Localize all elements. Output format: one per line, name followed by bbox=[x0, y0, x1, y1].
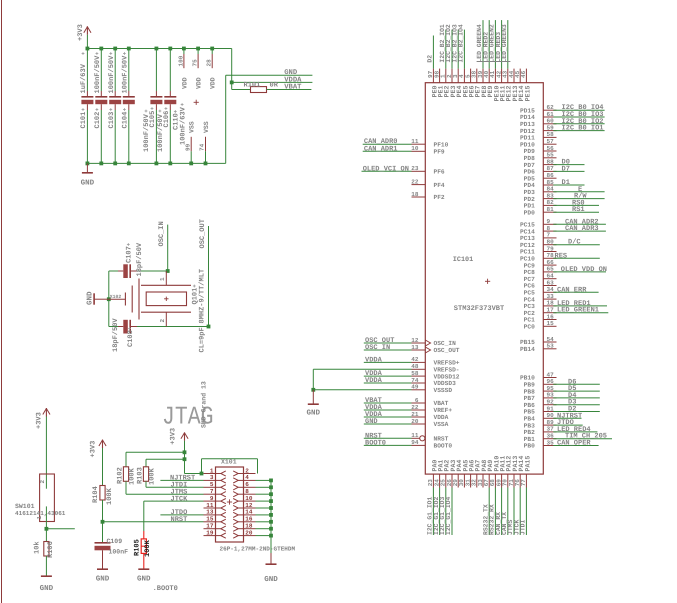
pin 11 NRST (left) bbox=[412, 437, 420, 439]
junction bottom bus bbox=[189, 162, 193, 166]
svg-text:10: 10 bbox=[411, 145, 419, 152]
wire GND bottom bus bbox=[87, 162, 225, 164]
pin 7 PC13 (right) bbox=[543, 237, 556, 239]
net I2C_B0_IO1 wire bbox=[553, 130, 604, 132]
pin 56 PD9 (right) bbox=[543, 150, 556, 152]
svg-text:75: 75 bbox=[192, 59, 199, 67]
net TIM_CH_205 wire bbox=[553, 438, 612, 440]
capacitor C102 bbox=[100, 49, 102, 92]
pin 22 VREF+ (left) bbox=[412, 409, 426, 411]
junction OSC_OUT node bbox=[207, 325, 211, 329]
resistor R102 bbox=[123, 467, 128, 482]
capacitor C103 bbox=[114, 49, 116, 92]
svg-text:C103: C103 bbox=[108, 112, 116, 129]
pin 94 BOOT0 (left) bbox=[412, 444, 426, 446]
pin 59 PD12 (right) bbox=[543, 130, 556, 132]
svg-text:100nF/50V: 100nF/50V bbox=[121, 55, 130, 94]
svg-text:VDDA: VDDA bbox=[434, 414, 449, 421]
pin 71 PA13 (bottom) bbox=[513, 474, 515, 487]
svg-text:R103: R103 bbox=[136, 467, 144, 484]
svg-text:41612141,43061: 41612141,43061 bbox=[15, 510, 66, 517]
net VDDA wire bbox=[364, 409, 412, 411]
net VSSSD wire bbox=[313, 389, 411, 391]
wire VDDA rail bbox=[232, 81, 313, 83]
net CAN_ADR3 wire bbox=[553, 230, 606, 232]
svg-text:GND: GND bbox=[264, 575, 278, 584]
junction top bus bbox=[99, 47, 103, 51]
net JTDI wire bbox=[525, 488, 527, 536]
junction SW101 node bbox=[45, 527, 49, 531]
net RS232_RX wire bbox=[494, 488, 496, 536]
svg-text:D/C: D/C bbox=[568, 238, 581, 247]
svg-text:IC101: IC101 bbox=[453, 256, 473, 264]
pin 14 (right) bbox=[244, 514, 256, 516]
wire OSC_OUT stub bbox=[208, 226, 210, 327]
svg-text:+3V3: +3V3 bbox=[36, 412, 44, 429]
svg-text:VSS: VSS bbox=[203, 121, 210, 133]
net LED_RED1 wire bbox=[553, 305, 607, 307]
pin 88 PD7 (right) bbox=[543, 164, 556, 166]
wire R102 top bbox=[125, 452, 127, 467]
svg-text:C101: C101 bbox=[80, 112, 88, 129]
resistor R101 bbox=[251, 87, 267, 93]
pin 60 PD13 (right) bbox=[543, 123, 556, 125]
pin 92 PB6 (right) bbox=[543, 404, 556, 406]
pin 61 PD14 (right) bbox=[543, 116, 556, 118]
svg-text:RS1: RS1 bbox=[572, 206, 585, 214]
net D2 wire bbox=[432, 36, 434, 69]
svg-text:VREF+: VREF+ bbox=[434, 407, 453, 414]
svg-text:18pF/50V: 18pF/50V bbox=[135, 242, 144, 276]
pin 80 PC12 (right) bbox=[543, 244, 556, 246]
pin 32 PA7 (bottom) bbox=[476, 474, 478, 487]
pin 29 PA4 (bottom) bbox=[457, 474, 459, 487]
pin 35 PB0 (right) bbox=[543, 445, 556, 447]
wire pin1-pin2 bridge bbox=[201, 459, 203, 474]
pin 42 VREFSD+ (left) bbox=[412, 361, 426, 363]
net LED_RED2 wire bbox=[488, 20, 490, 69]
pin 98 PE1 (top) bbox=[439, 69, 441, 83]
svg-text:+3V3: +3V3 bbox=[77, 24, 85, 41]
pin 85 PD4 (right) bbox=[543, 184, 556, 186]
pin 8 (right) bbox=[244, 493, 256, 495]
pin 48 VREFSD- (left) bbox=[412, 368, 426, 370]
pin 21 VDDA (left) bbox=[412, 416, 426, 418]
junction top bus bbox=[210, 47, 214, 51]
IC101 origin cross bbox=[485, 280, 490, 282]
svg-text:JTDI: JTDI bbox=[520, 519, 527, 535]
net RS0 wire bbox=[553, 204, 599, 206]
junction R102 tap bbox=[183, 450, 187, 454]
pin 49 VSSSD (left) bbox=[412, 389, 426, 391]
pin 10 (right) bbox=[244, 500, 256, 502]
net OSC_OUT wire bbox=[364, 342, 412, 344]
pin 6 VBAT (left) bbox=[412, 402, 426, 404]
pin 84 PD3 (right) bbox=[543, 191, 556, 193]
net VDDA wire bbox=[364, 416, 412, 418]
net JTCK wire bbox=[144, 500, 204, 502]
capacitor C104 bbox=[128, 49, 130, 92]
svg-text:R106: R106 bbox=[47, 541, 55, 558]
pin 63 PC6 (right) bbox=[543, 285, 556, 287]
wire pin to GND bus bbox=[256, 500, 272, 502]
svg-text:49: 49 bbox=[411, 384, 419, 391]
svg-text:NRST: NRST bbox=[171, 516, 188, 524]
junction bottom bus bbox=[127, 162, 131, 166]
junction bottom bus bbox=[99, 162, 103, 166]
svg-text:VDD: VDD bbox=[181, 77, 188, 89]
pin 23 PA0 (bottom) bbox=[432, 474, 434, 487]
wire connector GND bus bbox=[270, 480, 272, 553]
pin 2 PE3 (top) bbox=[451, 69, 453, 83]
wire GND riser bbox=[225, 75, 227, 163]
svg-text:PF9: PF9 bbox=[434, 149, 445, 156]
wire OSC_IN stub bbox=[167, 225, 169, 271]
svg-text:94: 94 bbox=[411, 439, 419, 446]
wire +3V3 to SW101 pin 2 bbox=[45, 417, 47, 489]
pin 37 PB2 (right) bbox=[543, 431, 556, 433]
pin 11 (left) bbox=[204, 507, 216, 509]
wire to C108 bbox=[109, 326, 118, 328]
net D5 wire bbox=[553, 390, 600, 392]
junction OSC_IN node bbox=[166, 269, 170, 273]
junction GND bus bbox=[269, 534, 273, 538]
pin 4 PE5 (top) bbox=[463, 69, 465, 83]
svg-text:0R: 0R bbox=[270, 81, 279, 89]
net GND wire bbox=[364, 423, 412, 425]
net BOOT0 wire bbox=[364, 444, 412, 446]
svg-text:100K: 100K bbox=[144, 539, 152, 557]
svg-text:+3V3: +3V3 bbox=[170, 428, 178, 445]
svg-text:PA15: PA15 bbox=[524, 456, 531, 472]
svg-text:12: 12 bbox=[411, 337, 419, 344]
pin 38 PE7 (top) bbox=[476, 69, 478, 83]
pin 68 PA10 (bottom) bbox=[494, 474, 496, 487]
pin 18 PC3 (right) bbox=[543, 305, 556, 307]
svg-text:21: 21 bbox=[411, 411, 419, 418]
junction VSSSD node bbox=[311, 388, 315, 392]
pin VDD 100 bbox=[183, 49, 185, 55]
net CAN_TX wire bbox=[507, 488, 509, 536]
wire VREFSD- to VSSSD bbox=[312, 369, 314, 390]
svg-text:LED_GREEN1: LED_GREEN1 bbox=[557, 307, 599, 315]
svg-text:CAN_ERR: CAN_ERR bbox=[557, 286, 587, 294]
wire pin to GND bus bbox=[256, 535, 272, 537]
pin 24 PA1 (bottom) bbox=[439, 474, 441, 487]
pin 1 PE2 (top) bbox=[445, 69, 447, 83]
net D4 wire bbox=[553, 397, 600, 399]
svg-text:C102: C102 bbox=[94, 112, 102, 129]
pin 41 PE10 (top) bbox=[494, 69, 496, 83]
net LED_GREEN4 wire bbox=[482, 20, 484, 69]
svg-text:46: 46 bbox=[520, 70, 527, 78]
svg-text:C109: C109 bbox=[107, 538, 123, 545]
pin 18 (right) bbox=[244, 528, 256, 530]
pin 65 PC8 (right) bbox=[543, 271, 556, 273]
pin 12 (right) bbox=[244, 507, 256, 509]
net I2C_B0_IO3 wire bbox=[553, 116, 604, 118]
svg-text:BOOT0: BOOT0 bbox=[434, 443, 453, 450]
svg-text:100nF/63V: 100nF/63V bbox=[178, 106, 187, 145]
wire pin to GND bus bbox=[256, 493, 272, 495]
net VDDA wire bbox=[364, 382, 412, 384]
junction bottom bus bbox=[168, 162, 172, 166]
pin 91 PB5 (right) bbox=[543, 411, 556, 413]
svg-text:28: 28 bbox=[206, 59, 213, 67]
svg-text:2: 2 bbox=[39, 480, 46, 484]
svg-text:D1: D1 bbox=[562, 179, 570, 187]
resistor R103 bbox=[143, 467, 148, 482]
net VBAT wire bbox=[364, 402, 412, 404]
wire crystal left vertical bbox=[108, 271, 110, 327]
junction bottom bus bbox=[86, 162, 90, 166]
pin 76 PA14 (bottom) bbox=[519, 474, 521, 487]
pin 10 PF9 (left) bbox=[412, 150, 426, 152]
pin 62 PD15 (right) bbox=[543, 109, 556, 111]
junction top bus bbox=[155, 47, 159, 51]
svg-text:I2C_B2_IO4: I2C_B2_IO4 bbox=[458, 24, 465, 63]
net JTMS wire bbox=[513, 488, 515, 536]
pin 18 PF2 (left) bbox=[412, 196, 426, 198]
svg-text:C104: C104 bbox=[122, 112, 130, 129]
svg-text:53: 53 bbox=[547, 343, 555, 350]
svg-text:99: 99 bbox=[184, 143, 191, 151]
ground R105 GND bbox=[138, 568, 149, 570]
pin 96 PB9 (right) bbox=[543, 383, 556, 385]
net I2C_G1_IO1 wire bbox=[432, 488, 434, 536]
svg-text:C107: C107 bbox=[126, 246, 134, 263]
resistor R106 bbox=[44, 542, 49, 557]
wire +3V3 drop bbox=[231, 49, 233, 83]
junction top bus bbox=[182, 47, 186, 51]
wire +3V3 to R104 bbox=[102, 448, 104, 486]
pin 2 (right) bbox=[244, 473, 256, 475]
ground bbox=[266, 563, 277, 565]
svg-text:D2: D2 bbox=[427, 55, 434, 63]
pin 33 PC4 (right) bbox=[543, 298, 556, 300]
pin 43 PE12 (top) bbox=[507, 69, 509, 83]
pin 23 PF6 (left) bbox=[412, 170, 426, 172]
pin 70 PA12 (bottom) bbox=[507, 474, 509, 487]
wire SW101 pin 1 bbox=[45, 506, 47, 528]
wire to C107 bbox=[109, 270, 118, 272]
svg-text:6: 6 bbox=[415, 397, 419, 404]
net LED_RED4 wire bbox=[553, 431, 597, 433]
svg-text:74: 74 bbox=[199, 143, 206, 151]
svg-text:PB0: PB0 bbox=[524, 443, 535, 450]
pin VDD 75 bbox=[197, 49, 199, 55]
svg-text:SW101: SW101 bbox=[15, 503, 35, 510]
net NRST wire bbox=[103, 521, 204, 523]
junction GND tee bbox=[107, 297, 111, 301]
pin 42 PE11 (top) bbox=[501, 69, 503, 83]
net D3 wire bbox=[553, 404, 600, 406]
junction bottom bus bbox=[204, 162, 208, 166]
junction bottom bus bbox=[155, 162, 159, 166]
pin 97 PE0 (top) bbox=[432, 69, 434, 83]
pin 31 PA6 (bottom) bbox=[470, 474, 472, 487]
IC IC101 STM32F373VBT body bbox=[425, 83, 543, 474]
svg-text:PC0: PC0 bbox=[524, 324, 535, 331]
pin 22 PF4 (left) bbox=[412, 184, 426, 186]
net NRST wire bbox=[364, 437, 412, 439]
svg-text:100nF/50V: 100nF/50V bbox=[107, 55, 116, 94]
net I2C_G1_IO2 wire bbox=[439, 488, 441, 536]
wire +3V3 top bus bbox=[87, 48, 231, 50]
net JTDI wire bbox=[146, 486, 204, 488]
svg-text:OSC_IN: OSC_IN bbox=[158, 221, 166, 246]
pin 58 PD11 (right) bbox=[543, 136, 556, 138]
svg-text:PB14: PB14 bbox=[520, 346, 535, 353]
wire R102 bottom bbox=[125, 481, 127, 494]
svg-text:RES: RES bbox=[555, 252, 568, 260]
wire to pin1 bbox=[185, 473, 202, 475]
svg-text:R102: R102 bbox=[116, 467, 124, 484]
svg-text:100: 100 bbox=[177, 55, 184, 66]
svg-text:R104: R104 bbox=[92, 486, 100, 503]
pin 20 VSSA (left) bbox=[412, 423, 426, 425]
pin 77 PA15 (bottom) bbox=[525, 474, 527, 487]
pin 15 (left) bbox=[204, 521, 216, 523]
svg-text:GND: GND bbox=[137, 575, 151, 584]
svg-text:VSS: VSS bbox=[189, 121, 196, 133]
wire JTCK to R105 bbox=[143, 501, 145, 531]
crystal Q101 bbox=[165, 271, 167, 285]
wire VBAT rail bbox=[267, 89, 312, 91]
junction GND bus bbox=[269, 485, 273, 489]
net CAN_ADR0 wire bbox=[363, 143, 412, 145]
net I2C_B2_IO3 wire bbox=[457, 30, 459, 69]
junction top bus bbox=[168, 47, 172, 51]
svg-text:R105: R105 bbox=[133, 539, 141, 556]
pin 6 (right) bbox=[244, 486, 256, 488]
svg-text:77: 77 bbox=[520, 479, 527, 487]
junction GND bus bbox=[269, 492, 273, 496]
svg-text:19: 19 bbox=[206, 529, 214, 536]
junction top bus bbox=[127, 47, 131, 51]
wire +3V3 to bus bbox=[86, 35, 88, 49]
wire pin to GND bus bbox=[256, 528, 272, 530]
pin 15 PC0 (right) bbox=[543, 325, 556, 327]
pin 5 (left) bbox=[204, 486, 216, 488]
net NJTRST wire bbox=[553, 417, 581, 419]
wire R103 top bbox=[145, 459, 147, 467]
pin 16 PC1 (right) bbox=[543, 319, 556, 321]
pin 13 (left) bbox=[204, 514, 216, 516]
net JTCK wire bbox=[519, 488, 521, 536]
pin 46 PE15 (top) bbox=[525, 69, 527, 83]
connector X101 bbox=[216, 467, 244, 542]
svg-text:D7: D7 bbox=[562, 165, 570, 173]
net D6 wire bbox=[553, 383, 600, 385]
junction pin1 node bbox=[200, 472, 204, 476]
svg-text:18pF/50V: 18pF/50V bbox=[111, 318, 120, 352]
crystal case earth electrode bbox=[109, 298, 126, 300]
svg-text:CL=9pF: CL=9pF bbox=[198, 327, 206, 352]
wire node to C109 bbox=[102, 522, 104, 543]
net D0 wire bbox=[553, 164, 584, 166]
pin 33 PA8 (bottom) bbox=[482, 474, 484, 487]
net D1 wire bbox=[553, 184, 584, 186]
svg-text:20: 20 bbox=[411, 418, 419, 425]
svg-text:1uF/63V: 1uF/63V bbox=[79, 63, 88, 93]
net RES wire bbox=[553, 257, 600, 259]
svg-text:LED_GREEN3: LED_GREEN3 bbox=[501, 24, 508, 63]
net CAN_OPER wire bbox=[553, 445, 598, 447]
svg-text:PD0: PD0 bbox=[524, 209, 535, 216]
pin 19 (left) bbox=[204, 535, 216, 537]
svg-text:CAN_OPER: CAN_OPER bbox=[557, 440, 591, 448]
pin 44 PE13 (top) bbox=[513, 69, 515, 83]
pin 30 PA5 (bottom) bbox=[463, 474, 465, 487]
wire C108 to OSC_OUT bbox=[137, 326, 209, 328]
wire GND rail bbox=[226, 74, 313, 76]
svg-text:1: 1 bbox=[159, 277, 166, 281]
net LED_RED3 wire bbox=[501, 20, 503, 69]
net I2C_B2_IO2 wire bbox=[451, 30, 453, 69]
net RS232_TX wire bbox=[488, 488, 490, 536]
net NJTRST wire bbox=[160, 479, 203, 481]
pin 47 PB10 (right) bbox=[543, 377, 556, 379]
net I2C_B0_IO4 wire bbox=[553, 109, 604, 111]
svg-text:X101: X101 bbox=[221, 459, 237, 466]
pin 55 PD8 (right) bbox=[543, 157, 556, 159]
svg-text:OLED_VCI_ON: OLED_VCI_ON bbox=[363, 165, 409, 173]
pin 87 PD6 (right) bbox=[543, 170, 556, 172]
connector origin cross bbox=[227, 501, 232, 503]
svg-text:100nF: 100nF bbox=[109, 549, 129, 556]
net LED_GREEN3 wire bbox=[507, 20, 509, 69]
svg-text:PF4: PF4 bbox=[434, 182, 445, 189]
pin 3 (left) bbox=[204, 479, 216, 481]
wire +3V3 down bbox=[184, 441, 186, 474]
pin 7 (left) bbox=[204, 493, 216, 495]
pin 26 PA3 (bottom) bbox=[451, 474, 453, 487]
wire pin to GND bus bbox=[256, 514, 272, 516]
net JTDO wire bbox=[160, 514, 203, 516]
wire R103 bottom bbox=[145, 481, 147, 487]
svg-text:I2C_G1_IO4: I2C_G1_IO4 bbox=[445, 496, 452, 535]
pin 82 PD1 (right) bbox=[543, 204, 556, 206]
wire pin to GND bus bbox=[256, 479, 272, 481]
pin 40 PE9 (top) bbox=[488, 69, 490, 83]
svg-text:VBAT: VBAT bbox=[284, 84, 302, 92]
net JTMS wire bbox=[126, 493, 204, 495]
pin 53 PB14 (right) bbox=[543, 348, 556, 350]
wire VBAT drop bbox=[231, 82, 233, 89]
pin 36 PB1 (right) bbox=[543, 438, 556, 440]
pin VDD 28 bbox=[211, 49, 213, 55]
wire pin to GND bus bbox=[256, 507, 272, 509]
pin 78 PC10 (right) bbox=[543, 257, 556, 259]
wire pin to GND bus bbox=[256, 486, 272, 488]
svg-text:35: 35 bbox=[547, 439, 555, 446]
svg-text:VBAT: VBAT bbox=[434, 400, 449, 407]
net JTDO wire bbox=[553, 424, 582, 426]
net R/W wire bbox=[553, 198, 604, 200]
ground bbox=[82, 172, 93, 174]
wire GND stub bbox=[86, 163, 88, 172]
svg-text:VDD: VDD bbox=[210, 77, 217, 89]
svg-text:22: 22 bbox=[411, 404, 419, 411]
ground crystal GND symbol bbox=[94, 298, 109, 300]
capacitor C101 bbox=[86, 49, 88, 92]
net CAN_ADR1 wire bbox=[363, 150, 412, 152]
svg-text:R101: R101 bbox=[244, 81, 261, 89]
svg-text:OSC_IN: OSC_IN bbox=[434, 340, 457, 347]
pin 45 PE14 (top) bbox=[519, 69, 521, 83]
svg-text:8MHZ-9/TT/MLT: 8MHZ-9/TT/MLT bbox=[197, 269, 206, 324]
